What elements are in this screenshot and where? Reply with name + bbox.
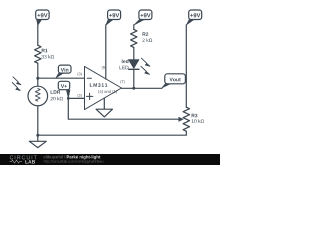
text V+ flag [61, 84, 67, 88]
net flag +9V (left, V1 supply) [36, 10, 49, 20]
wire LDR to bottom rail [37, 106, 39, 135]
resistor R2 [131, 29, 137, 47]
pin label (2) [78, 94, 82, 98]
footer url [44, 160, 104, 164]
ground GND1 [37, 135, 39, 141]
label 20 kOhm [51, 97, 64, 101]
text +9V flag left [37, 13, 47, 17]
pin label (7) [120, 80, 124, 84]
net flag +9V (top right) [189, 10, 202, 20]
label 33 kOhm [42, 55, 55, 59]
logo CIRCUIT [10, 156, 37, 160]
net flag +9V (over R2) [139, 10, 152, 20]
wire R1 to LDR [37, 63, 39, 86]
wire V+ node to R3 wiper [68, 98, 179, 119]
text +9V flag right [190, 13, 200, 17]
wire LED to output node [133, 70, 135, 88]
footer title [67, 155, 101, 159]
junction V+ node [67, 97, 70, 100]
text +9V flag R2 [140, 13, 150, 17]
label LDR [51, 90, 61, 93]
bottom rail wire to R3 [38, 131, 187, 135]
plus input marker [86, 93, 92, 99]
potentiometer R3 [183, 107, 189, 131]
LDR light arrow 2 [12, 83, 17, 88]
footer author [44, 155, 66, 159]
text +9V flag op-amp [109, 13, 119, 17]
minus input marker [87, 77, 91, 79]
net flag Vout [165, 74, 186, 84]
R3 wiper arrowhead [179, 117, 183, 121]
label 2 kOhm [142, 38, 152, 42]
pin label (4) and (1) [98, 90, 117, 94]
junction output node [132, 87, 135, 90]
net flag +9V (op-amp supply) [108, 10, 121, 20]
text Vout flag [170, 78, 181, 82]
net flag Vin [58, 65, 71, 73]
label R1 [42, 49, 48, 52]
label R3 [192, 114, 198, 118]
wire +9V to R1 [37, 25, 39, 45]
op-amp U1 LM311 body [85, 66, 122, 109]
wire op-amp output [122, 87, 163, 89]
wire R2 to LED [133, 47, 135, 59]
label LED [119, 66, 128, 69]
label led [122, 60, 129, 64]
photoresistor LDR body [28, 86, 48, 106]
resistor R1 [35, 45, 41, 63]
wire +9V to R2 [133, 25, 135, 30]
junction bottom-left node [36, 134, 39, 137]
wire non-inverting input [68, 97, 84, 99]
pin label (3) [78, 72, 82, 76]
logo zigzag [10, 160, 23, 163]
text Vin flag [61, 68, 69, 72]
wire +9V right down to R3 [185, 25, 187, 107]
ground GND2 [96, 109, 112, 117]
LED symbol [129, 60, 139, 69]
node junction R1/LDR/Vin [36, 77, 39, 80]
LED light arrow 2 [141, 66, 146, 71]
label 10 kOhm [192, 119, 204, 123]
footer bar [0, 154, 220, 165]
wire +9V to op-amp pin 8 [105, 25, 107, 79]
pin label (8) [102, 66, 106, 70]
label R2 [143, 32, 149, 35]
wire node to op-amp inverting input [38, 77, 85, 79]
LDR light arrow 1 [13, 77, 18, 82]
LED light arrow 1 [141, 58, 146, 63]
net flag V+ [58, 81, 69, 89]
wire op-amp pins 4,1 to ground [103, 98, 105, 109]
label LM311 [90, 83, 108, 87]
logo LAB [25, 160, 35, 163]
